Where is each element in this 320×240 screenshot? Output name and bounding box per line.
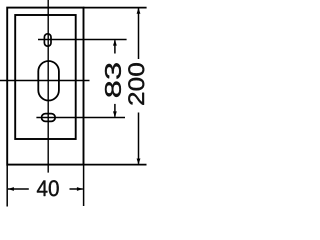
top extension line for 200 [83,7,147,9]
top slot (small vertical stadium) [44,34,51,46]
outer body rectangle [7,8,83,165]
inner plate rectangle [15,15,75,139]
dim line 40: left segment with left arrow [8,188,29,190]
dim line 200: upper segment with up arrow [138,8,140,59]
dim line 40: right segment with right arrow [70,188,83,190]
bottom slot centerline / extension line for 83 [36,117,125,119]
40 extension line left [6,165,8,207]
middle oval (large stadium hole) [38,61,59,101]
label 200 (rotated) [128,63,144,105]
dim line 83: lower segment with down arrow [114,104,116,117]
dim line 83: upper segment with up arrow [114,40,116,53]
vertical centerline [47,0,49,173]
bottom slot (small horizontal stadium) [42,114,56,122]
40 extension line right [83,165,85,206]
label 83 (rotated) [105,63,121,97]
top slot centerline / extension line for 83 [38,39,127,41]
dim line 200: lower segment with down arrow [138,113,140,164]
label 40 [37,180,59,196]
horizontal centerline [0,80,90,82]
bottom extension line for 200 [83,164,147,166]
